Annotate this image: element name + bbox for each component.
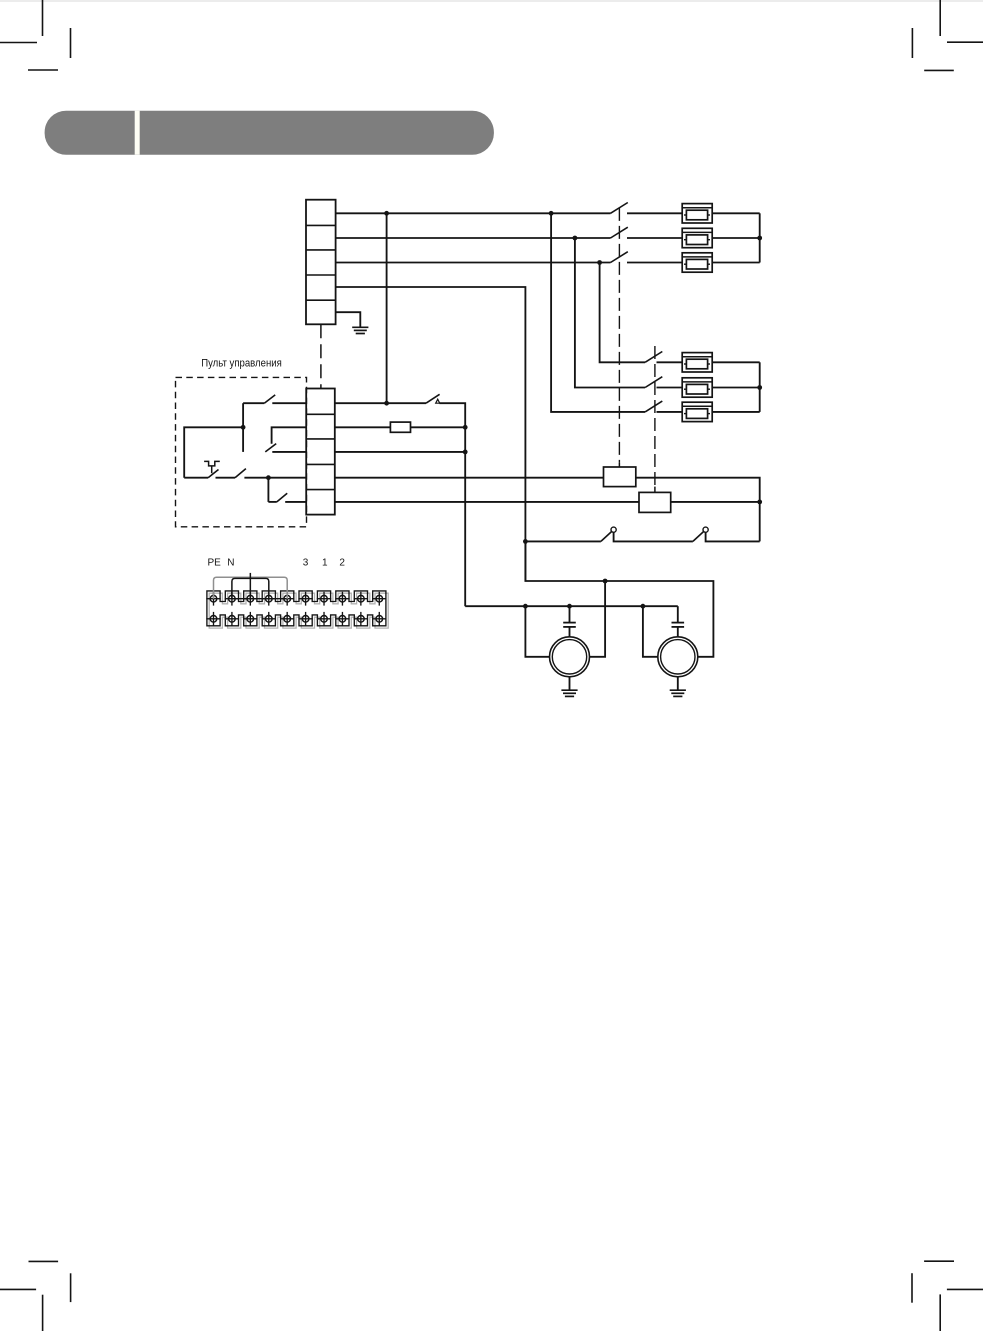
wire common node to left rail — [184, 427, 243, 477]
fan switch 1 blade — [601, 531, 612, 541]
junction node wire L1 / drop to lamp group 2 row 3 — [549, 211, 554, 216]
wire switch to lamp 2 (group 2) — [657, 387, 683, 389]
node neutral / capacitor C1 — [567, 604, 572, 609]
crop marks bottom-left — [0, 1261, 71, 1331]
svg-text:PE: PE — [208, 557, 222, 568]
capacitor C1 — [563, 606, 576, 636]
motor M1 — [550, 637, 590, 677]
junction node wire L2 / drop to lamp group 2 row 2 — [573, 236, 578, 241]
lamp 3 (group 1) — [682, 253, 712, 272]
lamp 3 (group 2) — [682, 402, 712, 421]
jumper terminal 1 to 5 (grey) — [214, 577, 288, 599]
node right bus / row 5 — [757, 500, 762, 505]
control panel dashed box — [176, 377, 307, 526]
wire thermal switch to right rail — [439, 403, 465, 606]
lamp switch 2 (group 1) — [611, 227, 628, 238]
terminal screw top 6 — [298, 592, 312, 606]
vertical link S1 to common node — [242, 403, 244, 452]
node cell1 wire / drop from L1 — [384, 401, 389, 406]
mechanical link dashed (lamp switch group 1) — [618, 208, 620, 467]
lamp 1 (group 1) — [682, 204, 712, 223]
wire S2 to X2 cell 3 — [272, 451, 306, 453]
crop marks bottom-right — [912, 1261, 983, 1331]
node right rail row3 — [463, 450, 468, 455]
switch S1 wire (panel row 1) — [243, 402, 264, 404]
switch S4 blade (row 5) — [277, 493, 287, 502]
crop marks top-left — [0, 0, 71, 70]
switch S1 blade — [264, 395, 275, 403]
lamp 2 (group 2) — [682, 378, 712, 397]
node neutral / motor2 left drop — [641, 604, 646, 609]
terminal screw bottom 1 — [206, 612, 220, 626]
wire L4 node to fan switch 1 — [525, 540, 601, 542]
node wire L4 / fan switch row — [523, 539, 528, 544]
vertical link row 4 to row 5 — [267, 478, 269, 502]
terminal screw bottom 7 — [317, 612, 331, 626]
terminal screw bottom 10 — [372, 612, 386, 626]
fan switch 2 blade — [693, 531, 704, 541]
common node dot (panel) — [241, 425, 246, 430]
junction node wire L1 / control drop — [384, 211, 389, 216]
wire between fan switches — [614, 532, 693, 541]
wire speed line from L4 drop to motor droppers — [525, 541, 713, 656]
ground symbol at X1 — [352, 327, 368, 333]
dashed link X1 to X2 — [320, 324, 322, 388]
wire lamp 2 to right bus (group 1) — [712, 237, 760, 239]
terminal screw bottom 9 — [354, 612, 368, 626]
terminal screw bottom 6 — [298, 612, 312, 626]
capacitor C2 — [672, 606, 685, 636]
node bus / lamp 2 (group 2) — [757, 385, 762, 390]
lamp switch 3 (group 1) — [611, 252, 628, 263]
header bar — [45, 111, 494, 155]
motor 1 right drop wire — [590, 581, 605, 657]
wire L4 from X1 down to motor circuit — [336, 287, 526, 581]
lamp 2 (group 1) — [682, 228, 712, 247]
fan switch 1 contact circle — [611, 527, 616, 532]
terminal screw top 4 — [262, 592, 276, 606]
lamp switch 1 (group 1) — [611, 203, 628, 214]
neutral rail to motors — [465, 605, 678, 607]
incoming lead to terminal 3 — [249, 573, 251, 599]
wire X2 cell 5 to relay K2 — [335, 501, 639, 503]
node row 4 (panel) — [266, 475, 271, 480]
terminal screw top 1 — [206, 592, 220, 606]
push button actuator — [204, 461, 220, 466]
wire L1 from X1 to lamp switch 1 — [336, 212, 611, 214]
lamp 1 (group 2) — [682, 353, 712, 372]
switch S2 blade — [265, 444, 276, 452]
node bus / lamp 2 (group 1) — [757, 236, 762, 241]
wire switch to lamp 3 (group 2) — [657, 411, 683, 413]
wire lamp 3 to right bus (group 2) — [712, 411, 760, 413]
lamp switch 2 (group 2) — [645, 377, 662, 388]
terminal screw top 9 — [354, 592, 368, 606]
junction node wire L3 / drop to lamp group 2 row 1 — [597, 260, 602, 265]
wire X2 cell 3 to right rail — [335, 451, 465, 453]
terminal screw bottom 8 — [335, 612, 349, 626]
terminal strip body shadow — [209, 593, 388, 628]
terminal screw bottom 4 — [262, 612, 276, 626]
right bus (lamp group 1) — [759, 213, 761, 262]
terminal screw top 3 — [243, 592, 257, 606]
motor M2 ground — [677, 677, 679, 690]
wire X2 cell 2 to interference filter — [335, 426, 391, 428]
lamp switch 1 (group 2) — [645, 352, 662, 363]
drop wire L2 junction to lamp group 2 row 2 — [575, 238, 645, 388]
switch S3 blade (row 4) — [235, 469, 246, 478]
page top edge shading — [0, 0, 983, 2]
terminal screw bottom 2 — [225, 612, 239, 626]
wire switch to lamp 1 (group 1) — [627, 212, 682, 214]
wire S1 to X2 cell 1 — [272, 402, 306, 404]
wire lamp 1 to right bus (group 2) — [712, 361, 760, 363]
wire row 4 to X2 cell 4 — [244, 477, 306, 479]
terminal screw top 2 — [225, 592, 239, 606]
wire switch to lamp 1 (group 2) — [657, 361, 683, 363]
jumper terminal 2 to 4 — [232, 578, 269, 598]
terminal block X1 — [306, 200, 336, 325]
top row link bar terminals 2-5 — [232, 598, 287, 600]
fan switch 2 contact circle — [703, 527, 708, 532]
relay coil K1 — [604, 467, 636, 487]
svg-text:2: 2 — [339, 557, 345, 568]
wire relay K1 to right bus — [636, 478, 760, 542]
lamp switch 3 (group 2) — [645, 401, 662, 412]
wire X2 cell 2 with contact stub — [272, 427, 307, 444]
terminal screw top 8 — [335, 592, 349, 606]
terminal screw top 5 — [280, 592, 294, 606]
crop marks top-right — [912, 0, 983, 70]
relay coil K2 — [639, 492, 671, 512]
terminal screw top 10 — [372, 592, 386, 606]
terminal strip body — [207, 591, 386, 626]
mechanical link dashed (lamp switch group 2) — [654, 346, 656, 492]
motor 2 left drop wire — [643, 606, 658, 657]
wire X2 cell 4 to relay K1 — [335, 477, 604, 479]
svg-text:Пульт управления: Пульт управления — [201, 358, 282, 370]
svg-text:3: 3 — [303, 557, 309, 568]
wire L3 from X1 to lamp switch 3 — [336, 262, 611, 264]
motor M2 — [658, 637, 698, 677]
node neutral / motor1 left drop — [523, 604, 528, 609]
header bar divider — [135, 111, 140, 155]
wire X2 cell 1 to thermal switch — [335, 402, 426, 404]
wire filter to right rail — [411, 426, 466, 428]
motor 1 left drop wire — [525, 606, 549, 657]
wire relay K2 to right bus — [671, 501, 760, 503]
drop wire L1 junction to lamp group 2 row 3 — [551, 213, 645, 412]
wire lamp 1 to right bus (group 1) — [712, 212, 760, 214]
node right rail row2 — [463, 425, 468, 430]
push button blade — [208, 470, 218, 478]
svg-text:N: N — [227, 557, 234, 568]
node mid wire / motor 1 right drop — [603, 579, 608, 584]
thermal switch blade — [426, 394, 440, 403]
right bus (lamp group 2) — [759, 362, 761, 412]
terminal screw bottom 3 — [243, 612, 257, 626]
wire L2 from X1 to lamp switch 2 — [336, 237, 611, 239]
motor M1 ground — [569, 677, 571, 690]
interference suppressor (resistor box) — [390, 422, 410, 432]
thermal switch contact triangle — [436, 399, 440, 403]
wire switch to lamp 3 (group 1) — [627, 262, 682, 264]
svg-text:1: 1 — [322, 557, 328, 568]
earth wire from X1 cell 5 — [336, 312, 361, 327]
wire switch to lamp 2 (group 1) — [627, 237, 682, 239]
terminal block X2 — [306, 389, 335, 515]
wire lamp 2 to right bus (group 2) — [712, 387, 760, 389]
wire row 5 to X2 cell 5 — [285, 501, 306, 503]
wire lamp 3 to right bus (group 1) — [712, 262, 760, 264]
wire fan switch 2 to right bus — [706, 532, 760, 541]
terminal screw top 7 — [317, 592, 331, 606]
terminal screw bottom 5 — [280, 612, 294, 626]
drop wire L3 junction to lamp group 2 row 1 — [600, 263, 646, 363]
wire row 4 middle segment — [216, 477, 236, 479]
wire row 4 left segment — [184, 477, 208, 479]
drop wire from L1 junction to control panel row 1 — [386, 213, 388, 403]
wire row 5 stub — [268, 501, 276, 503]
